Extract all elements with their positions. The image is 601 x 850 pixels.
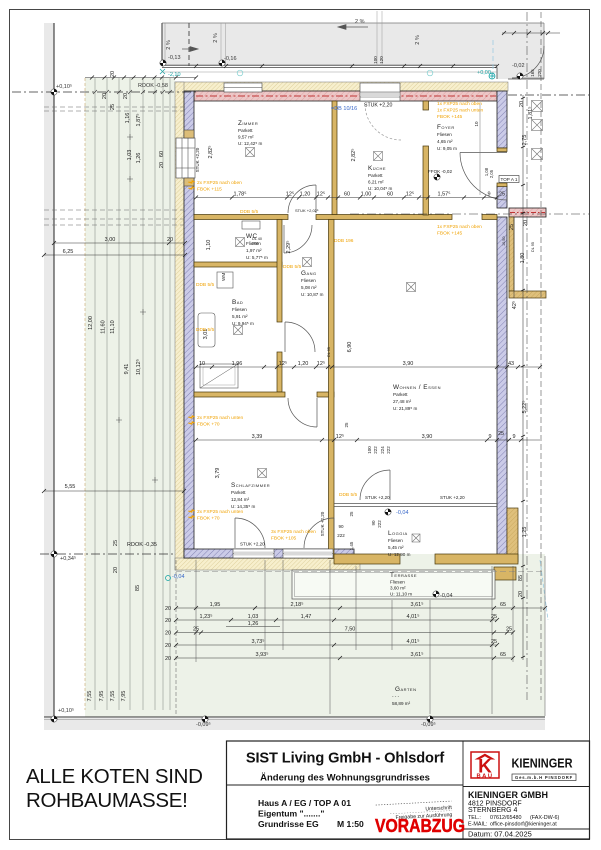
svg-text:1,23⁵: 1,23⁵ (200, 613, 213, 620)
svg-text:Datum: 07.04.2025: Datum: 07.04.2025 (468, 830, 532, 839)
svg-text:25: 25 (113, 540, 119, 546)
svg-text:+0,10⁵: +0,10⁵ (58, 707, 74, 714)
svg-text:25: 25 (498, 431, 504, 437)
svg-text:1,20: 1,20 (300, 192, 311, 198)
svg-text:100: 100 (373, 56, 378, 64)
svg-text:DL 95: DL 95 (531, 242, 535, 252)
svg-text:20: 20 (159, 162, 165, 168)
svg-text:9: 9 (487, 192, 490, 198)
svg-text:1,80: 1,80 (520, 253, 526, 264)
svg-text:Fliesen: Fliesen (301, 278, 316, 283)
svg-text:2 %: 2 % (166, 40, 172, 50)
svg-text:-2,10: -2,10 (168, 72, 181, 78)
svg-text:220: 220 (537, 69, 542, 77)
svg-text:60: 60 (344, 192, 350, 198)
svg-text:165: 165 (530, 69, 535, 77)
svg-text:DDB 5/5: DDB 5/5 (240, 209, 258, 215)
svg-text:DDB 5/5: DDB 5/5 (283, 264, 301, 270)
svg-text:25: 25 (506, 627, 512, 633)
svg-text:Grundrisse EG: Grundrisse EG (258, 819, 319, 829)
svg-text:1,97 m²: 1,97 m² (246, 248, 262, 253)
svg-text:65: 65 (500, 652, 506, 658)
svg-text:07612/65480: 07612/65480 (490, 815, 521, 821)
svg-text:11,60: 11,60 (101, 320, 107, 333)
svg-text:Änderung des Wohnungsgrundriss: Änderung des Wohnungsgrundrisses (260, 773, 430, 784)
svg-text:10,50: 10,50 (502, 236, 506, 246)
svg-text:U: 14,35⁵ m: U: 14,35⁵ m (231, 504, 256, 509)
svg-text:5,55: 5,55 (65, 484, 76, 490)
svg-text:Parkett: Parkett (368, 173, 383, 178)
svg-text:-0,04: -0,04 (396, 510, 409, 516)
svg-text:-0,16: -0,16 (224, 56, 237, 62)
svg-text:DL 95: DL 95 (327, 347, 331, 357)
svg-text:FBOK +105: FBOK +105 (271, 536, 297, 542)
svg-text:90: 90 (338, 524, 344, 529)
svg-text:ROHBAUMASSE!: ROHBAUMASSE! (26, 789, 188, 812)
svg-text:TOP A 1: TOP A 1 (501, 177, 518, 182)
svg-text:U: 12,42⁵ m: U: 12,42⁵ m (238, 141, 263, 146)
svg-text:DL 40: DL 40 (252, 237, 262, 241)
svg-text:2 %: 2 % (213, 33, 219, 43)
svg-text:20: 20 (110, 71, 116, 77)
svg-text:Foyer: Foyer (437, 124, 455, 131)
svg-text:5,08 m²: 5,08 m² (301, 285, 317, 290)
svg-text:STUK +2,20: STUK +2,20 (240, 542, 265, 547)
svg-text:1,16: 1,16 (125, 113, 131, 124)
svg-text:100: 100 (367, 446, 372, 454)
svg-text:20: 20 (167, 237, 173, 243)
svg-text:3,73⁵: 3,73⁵ (252, 638, 265, 645)
svg-text:200: 200 (252, 242, 258, 246)
svg-text:25: 25 (491, 614, 497, 620)
svg-text:2,82⁵: 2,82⁵ (207, 146, 214, 159)
svg-text:120: 120 (379, 56, 384, 64)
svg-text:1,57⁵: 1,57⁵ (438, 191, 451, 198)
svg-text:U: 10,87 m: U: 10,87 m (301, 292, 324, 297)
svg-text:12⁵: 12⁵ (279, 360, 287, 367)
svg-text:12⁵: 12⁵ (336, 433, 344, 440)
svg-text:222: 222 (377, 520, 382, 528)
svg-text:43: 43 (508, 361, 514, 367)
svg-text:1,26: 1,26 (136, 153, 142, 164)
svg-text:KIENINGER: KIENINGER (512, 755, 574, 770)
svg-text:6,25: 6,25 (63, 249, 74, 255)
svg-text:Ges.m.b.H PINSDORF: Ges.m.b.H PINSDORF (515, 775, 573, 780)
svg-text:Parkett: Parkett (231, 490, 246, 495)
svg-text:-0,13: -0,13 (168, 55, 181, 61)
svg-text:1,25: 1,25 (522, 527, 528, 538)
svg-text:U: 12,90 m: U: 12,90 m (388, 552, 411, 557)
svg-text:STUK +2,20: STUK +2,20 (365, 495, 390, 500)
svg-text:Garten: Garten (395, 686, 416, 693)
svg-text:DDB 5/5: DDB 5/5 (196, 282, 214, 288)
svg-text:5,45 m²: 5,45 m² (388, 545, 404, 550)
svg-text:U: 11,10 m: U: 11,10 m (390, 592, 412, 597)
svg-text:2,05: 2,05 (489, 169, 494, 178)
svg-text:-0,09⁵: -0,09⁵ (421, 721, 436, 728)
svg-text:FFOK -0,02: FFOK -0,02 (428, 169, 452, 174)
svg-text:2,75: 2,75 (522, 135, 528, 146)
svg-text:-0,04: -0,04 (172, 574, 185, 580)
svg-text:20: 20 (519, 101, 525, 107)
svg-text:6,90: 6,90 (347, 342, 353, 353)
svg-text:3,00: 3,00 (105, 237, 116, 243)
svg-text:Terrasse: Terrasse (390, 572, 417, 579)
svg-text:12⁵: 12⁵ (317, 360, 325, 367)
svg-text:224: 224 (380, 446, 385, 454)
svg-text:U: 21,89⁵ m: U: 21,89⁵ m (393, 406, 418, 411)
svg-text:10,12⁵: 10,12⁵ (135, 359, 142, 375)
svg-text:1,45: 1,45 (349, 541, 354, 550)
svg-text:-0,04: -0,04 (440, 593, 453, 599)
svg-text:RDOK -0,35: RDOK -0,35 (127, 542, 157, 548)
svg-text:1x FXP25 nach oben: 1x FXP25 nach oben (437, 224, 482, 230)
svg-text:20: 20 (165, 631, 171, 637)
svg-text:1,10: 1,10 (206, 240, 212, 251)
svg-text:(FAX-DW-6): (FAX-DW-6) (530, 815, 559, 821)
svg-text:Fliesen: Fliesen (232, 307, 247, 312)
svg-text:25: 25 (193, 627, 199, 633)
svg-text:85: 85 (135, 585, 141, 591)
svg-text:85: 85 (518, 575, 524, 581)
svg-text:90: 90 (371, 520, 376, 526)
svg-text:Bad: Bad (232, 299, 243, 306)
svg-text:2 %: 2 % (355, 19, 365, 25)
svg-text:3,61⁵: 3,61⁵ (411, 651, 424, 658)
svg-text:60: 60 (387, 192, 393, 198)
svg-text:20: 20 (165, 656, 171, 662)
svg-text:9: 9 (512, 434, 515, 440)
svg-text:12,84 m²: 12,84 m² (231, 497, 250, 502)
svg-text:1,96: 1,96 (232, 361, 243, 367)
svg-text:office-pinsdorf@kieninger.at: office-pinsdorf@kieninger.at (490, 822, 557, 828)
svg-text:60: 60 (159, 151, 165, 157)
svg-text:STUK +2,20: STUK +2,20 (364, 103, 393, 109)
svg-text:25: 25 (344, 422, 349, 428)
svg-text:9,41: 9,41 (124, 364, 130, 375)
svg-text:VORABZUG: VORABZUG (375, 816, 465, 836)
svg-text:25: 25 (509, 224, 515, 230)
svg-text:3,90: 3,90 (422, 434, 433, 440)
svg-text:1,78⁵: 1,78⁵ (234, 191, 247, 198)
svg-text:1,03: 1,03 (248, 614, 259, 620)
svg-text:9,57 m²: 9,57 m² (238, 135, 254, 140)
svg-text:FBOK +70: FBOK +70 (197, 516, 220, 522)
svg-text:7,95: 7,95 (121, 691, 127, 702)
svg-text:12⁵: 12⁵ (317, 191, 325, 198)
svg-text:WM: WM (221, 273, 226, 281)
svg-text:=DB 10/16: =DB 10/16 (331, 106, 357, 112)
svg-text:U: 10,04⁵ m: U: 10,04⁵ m (368, 186, 393, 191)
svg-text:2,82⁵: 2,82⁵ (350, 149, 357, 162)
svg-text:20: 20 (165, 618, 171, 624)
svg-text:2x FXP25 nach oben: 2x FXP25 nach oben (197, 180, 242, 186)
svg-text:M 1:50: M 1:50 (337, 819, 364, 829)
svg-text:DDB 5/5: DDB 5/5 (339, 492, 357, 498)
svg-text:2 %: 2 % (415, 35, 421, 45)
svg-text:4,65 m²: 4,65 m² (437, 139, 453, 144)
svg-text:FBOK +145: FBOK +145 (437, 231, 463, 237)
svg-text:4,01⁵: 4,01⁵ (407, 613, 420, 620)
svg-text:KIENINGER GMBH: KIENINGER GMBH (468, 790, 548, 800)
svg-text:ALLE KOTEN SIND: ALLE KOTEN SIND (26, 765, 203, 788)
svg-text:20: 20 (165, 606, 171, 612)
svg-text:Gang: Gang (301, 270, 317, 277)
svg-text:BAU: BAU (476, 773, 493, 779)
svg-text:STERNBERG 4: STERNBERG 4 (468, 807, 518, 814)
svg-text:Loggia: Loggia (388, 530, 408, 537)
svg-text:Zimmer: Zimmer (238, 120, 258, 127)
svg-text:STUK +2,02⁵: STUK +2,02⁵ (295, 208, 319, 213)
svg-text:5,91 m²: 5,91 m² (232, 314, 248, 319)
svg-text:FBOK +115: FBOK +115 (197, 187, 222, 193)
svg-text:3,39: 3,39 (252, 434, 263, 440)
svg-text:SIST Living GmbH - Ohlsdorf: SIST Living GmbH - Ohlsdorf (246, 751, 445, 767)
svg-text:25: 25 (499, 192, 505, 198)
svg-text:222: 222 (373, 446, 378, 454)
svg-text:1,81⁵: 1,81⁵ (527, 107, 534, 120)
svg-text:9: 9 (488, 434, 491, 440)
svg-text:25: 25 (349, 511, 354, 517)
svg-text:20: 20 (123, 93, 129, 99)
svg-text:-0,09⁵: -0,09⁵ (196, 721, 211, 728)
svg-text:1,20: 1,20 (298, 361, 309, 367)
svg-text:- - -: - - - (392, 694, 400, 699)
svg-text:Eigentum ".......": Eigentum "......." (258, 809, 324, 819)
svg-text:+0,34⁵: +0,34⁵ (60, 555, 76, 562)
svg-text:5,22⁵: 5,22⁵ (521, 401, 528, 414)
svg-text:12,00: 12,00 (88, 316, 94, 330)
svg-text:2,18⁵: 2,18⁵ (291, 601, 304, 608)
svg-text:3,79: 3,79 (215, 468, 221, 479)
svg-text:Parkett: Parkett (238, 128, 253, 133)
svg-text:1,00: 1,00 (361, 192, 372, 198)
svg-text:3,90: 3,90 (403, 361, 414, 367)
svg-text:20: 20 (165, 643, 171, 649)
svg-text:U: 9,94⁵ m: U: 9,94⁵ m (232, 321, 254, 326)
svg-text:STUK +2,20: STUK +2,20 (195, 147, 200, 172)
svg-text:1,03: 1,03 (127, 150, 133, 161)
svg-text:Parkett: Parkett (393, 392, 408, 397)
svg-text:3,60 m²: 3,60 m² (390, 586, 406, 591)
svg-text:7,50: 7,50 (345, 627, 356, 633)
svg-text:7,95: 7,95 (99, 691, 105, 702)
svg-text:RDOK -0,58: RDOK -0,58 (138, 83, 168, 89)
svg-text:FBOK +145: FBOK +145 (437, 114, 463, 120)
svg-text:3,93⁵: 3,93⁵ (256, 651, 269, 658)
svg-text:FBOK +70: FBOK +70 (197, 422, 220, 428)
svg-text:3,61⁵: 3,61⁵ (411, 601, 424, 608)
svg-text:58,89 m²: 58,89 m² (392, 701, 411, 706)
svg-text:1,95: 1,95 (210, 602, 221, 608)
svg-text:STUK +2,20: STUK +2,20 (320, 511, 325, 536)
svg-text:222: 222 (337, 533, 345, 538)
svg-text:E-MAIL:: E-MAIL: (468, 822, 487, 828)
svg-text:-0,02: -0,02 (512, 63, 525, 69)
svg-text:6,21 m²: 6,21 m² (368, 180, 384, 185)
svg-text:222: 222 (386, 446, 391, 454)
svg-text:Schlafzimmer: Schlafzimmer (231, 482, 270, 489)
svg-text:2,29⁵: 2,29⁵ (285, 241, 292, 254)
svg-text:+0,00: +0,00 (477, 70, 491, 76)
svg-text:10: 10 (199, 361, 205, 367)
svg-text:U: 5,77⁵ m: U: 5,77⁵ m (246, 255, 268, 260)
svg-text:65: 65 (500, 602, 506, 608)
svg-text:25: 25 (110, 104, 116, 110)
svg-text:11,10: 11,10 (110, 320, 116, 333)
svg-text:Fliesen: Fliesen (390, 580, 405, 585)
svg-text:3x FXP25 nach oben: 3x FXP25 nach oben (271, 529, 316, 535)
svg-text:1,87⁵: 1,87⁵ (135, 114, 142, 127)
svg-text:1,47: 1,47 (301, 614, 312, 620)
svg-text:1,26: 1,26 (248, 621, 259, 627)
svg-text:+0,10⁵: +0,10⁵ (56, 83, 72, 90)
svg-text:25: 25 (491, 639, 497, 645)
svg-text:20: 20 (113, 567, 119, 573)
svg-text:4,01⁵: 4,01⁵ (407, 638, 420, 645)
svg-text:U: 9,05 m: U: 9,05 m (437, 146, 457, 151)
svg-text:TEL.:: TEL.: (468, 815, 481, 821)
svg-text:12⁵: 12⁵ (406, 191, 414, 198)
svg-text:DDB 196: DDB 196 (334, 238, 354, 244)
svg-text:10: 10 (474, 121, 479, 127)
svg-text:20: 20 (102, 93, 108, 99)
svg-text:1x FXP25 nach unten: 1x FXP25 nach unten (437, 108, 483, 114)
svg-text:12⁵: 12⁵ (286, 191, 294, 198)
svg-text:20: 20 (518, 591, 524, 597)
svg-text:STUK +2,20: STUK +2,20 (440, 495, 465, 500)
svg-text:42⁵: 42⁵ (511, 301, 518, 309)
svg-text:Fliesen: Fliesen (437, 132, 452, 137)
svg-text:Fliesen: Fliesen (388, 538, 403, 543)
svg-text:20: 20 (523, 220, 529, 226)
svg-text:Wohnen / Essen: Wohnen / Essen (393, 384, 441, 391)
svg-text:2x FXP25 nach unten: 2x FXP25 nach unten (197, 415, 243, 421)
svg-text:2x FXP25 nach unten: 2x FXP25 nach unten (197, 509, 243, 515)
svg-text:1x FXP25 nach oben: 1x FXP25 nach oben (437, 101, 482, 107)
svg-text:7,55: 7,55 (87, 691, 93, 702)
svg-text:Küche: Küche (368, 165, 386, 172)
svg-text:Haus A / EG / TOP A 01: Haus A / EG / TOP A 01 (258, 798, 351, 808)
svg-text:7,55: 7,55 (110, 691, 116, 702)
svg-text:DDB 5/5: DDB 5/5 (196, 327, 214, 333)
svg-text:27,48 m²: 27,48 m² (393, 399, 412, 404)
